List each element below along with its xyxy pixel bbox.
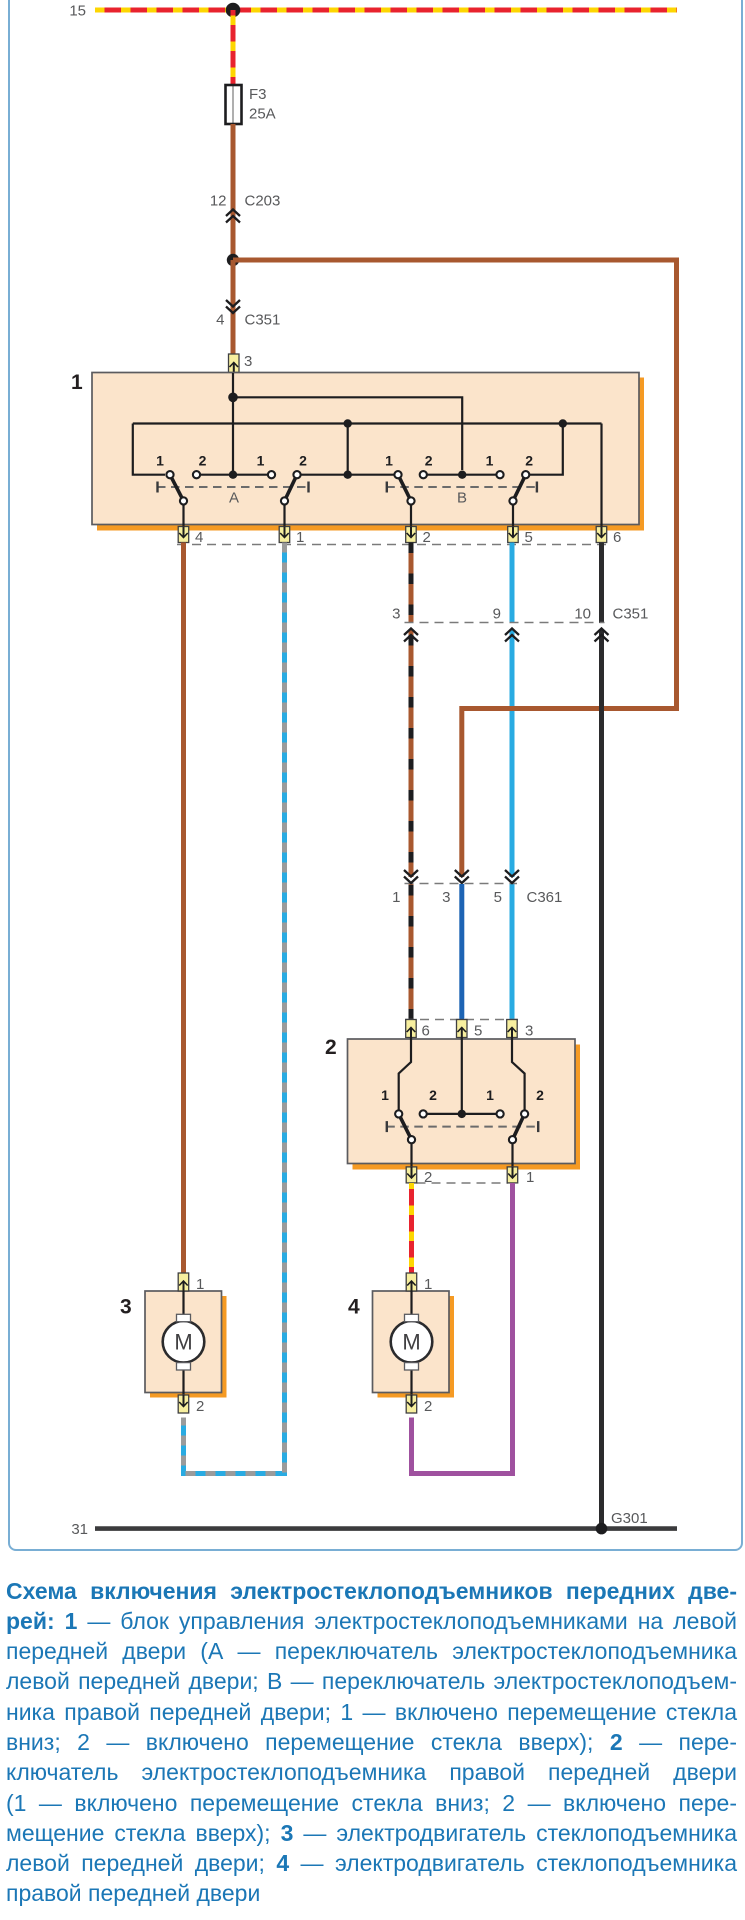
contact circles block2: [395, 1110, 528, 1117]
svg-text:1: 1: [71, 371, 83, 394]
connector C203 pin 12 chevrons: [226, 210, 240, 223]
connector C351 pin 9 chevrons: [505, 629, 519, 642]
pin 6 of block2: [406, 1020, 417, 1038]
switch B arm left: [398, 475, 411, 501]
junction line2 / riser A2'-B1: [344, 419, 352, 427]
connector C351 pin 4 chevrons: [226, 300, 240, 313]
svg-text:6: 6: [613, 529, 621, 546]
svg-text:C351: C351: [245, 312, 281, 329]
svg-text:G301: G301: [611, 1510, 648, 1527]
motor3 M circle: [163, 1321, 205, 1363]
switch A arm right (contact 2 to pivot): [285, 475, 298, 501]
motor4 internal wire: [410, 1291, 412, 1395]
svg-text:2: 2: [196, 1398, 204, 1415]
pin 6 of block1: [596, 527, 607, 543]
svg-text:3: 3: [120, 1296, 132, 1319]
svg-text:1: 1: [296, 529, 304, 546]
svg-text:1: 1: [526, 1169, 534, 1186]
svg-text:C203: C203: [245, 193, 281, 210]
wire node to C351 pin4 (brown): [231, 260, 236, 354]
wire cyan pin5 to C351 pin9: [510, 543, 515, 624]
junction line2 / riser B2': [559, 419, 567, 427]
svg-text:2: 2: [536, 1087, 544, 1103]
connector C351 pin 10 chevrons: [595, 629, 609, 642]
switch arm left block2: [399, 1114, 412, 1140]
wire contact row segment A2 to A1': [197, 474, 272, 476]
motor4 brush top: [405, 1314, 419, 1321]
pin 2 of block1: [406, 527, 417, 543]
svg-text:2: 2: [299, 453, 307, 469]
switch B travel dashed line: [386, 482, 537, 493]
block 1 body: [92, 373, 639, 525]
svg-text:4: 4: [348, 1296, 360, 1319]
junction riser on segment A2'-B1: [344, 471, 352, 479]
svg-text:15: 15: [69, 3, 86, 20]
wire brown/black C361 to block2 pin6: [409, 884, 414, 1020]
svg-text:4: 4: [216, 312, 224, 329]
wire pin5 into block2 to center junction: [461, 1038, 463, 1114]
wire yellow/red block2 pin2 to motor4 pin1: [409, 1183, 414, 1273]
wire cyan C361 to block2 pin3: [510, 884, 515, 1020]
pin 3 of block 1 (yellow connector): [229, 354, 240, 373]
svg-text:5: 5: [474, 1023, 482, 1040]
svg-text:1: 1: [257, 453, 265, 469]
junction on wire 15: [226, 3, 241, 18]
svg-text:2: 2: [424, 1398, 432, 1415]
svg-text:12: 12: [210, 193, 227, 210]
svg-text:1: 1: [385, 453, 393, 469]
connector C351 pin 3 chevrons: [404, 629, 418, 642]
motor4 brush bottom: [405, 1363, 419, 1370]
pin 3 of block2: [507, 1020, 518, 1038]
svg-text:1: 1: [156, 453, 164, 469]
dashed connector line over block2 top pins: [405, 1019, 518, 1021]
pin 2 of motor3: [178, 1395, 189, 1413]
svg-text:2: 2: [429, 1087, 437, 1103]
wire black C351 to ground: [599, 630, 604, 1529]
pin 1 of block1: [279, 527, 290, 543]
pin 4 of block1: [178, 527, 189, 543]
motor3 brush bottom: [177, 1363, 191, 1370]
svg-text:3: 3: [525, 1023, 533, 1040]
ground junction G301: [596, 1523, 608, 1535]
wire purple block2 pin1 to motor4 pin2: [412, 1183, 513, 1474]
junction feed on segment A: [229, 471, 237, 479]
wire contact row segment L2 to R1: [423, 1113, 500, 1115]
svg-text:2: 2: [199, 453, 207, 469]
svg-text:F3: F3: [249, 86, 267, 103]
switch arm right block2: [513, 1114, 525, 1140]
svg-text:3: 3: [244, 353, 252, 370]
wire fuse to node (brown): [231, 124, 236, 260]
block 2 body: [348, 1039, 576, 1164]
svg-text:1: 1: [196, 1276, 204, 1293]
pin 1 of motor4: [406, 1273, 417, 1291]
wire brown branch from node to C361 pin3: [233, 260, 677, 877]
svg-text:B: B: [457, 490, 467, 507]
pin 5 of block1: [508, 527, 519, 543]
wire feed node1 down to switch A center: [232, 397, 234, 474]
svg-text:9: 9: [493, 606, 501, 623]
wire line2 (common rail to pin 6): [133, 422, 602, 424]
wire pin3 into block1: [232, 373, 234, 397]
pin 2 of block2: [406, 1167, 417, 1183]
caption: [6, 1576, 737, 1909]
svg-text:2: 2: [425, 453, 433, 469]
pivot circles: [180, 497, 517, 504]
motor4 M circle: [391, 1321, 433, 1363]
stubs pivots to bottom pins block2: [412, 1144, 513, 1168]
fuse F3 25A: [226, 85, 242, 124]
svg-text:2: 2: [525, 453, 533, 469]
motor3 internal wire: [182, 1291, 184, 1395]
pivot circles block2: [408, 1136, 516, 1143]
svg-text:C361: C361: [527, 889, 563, 906]
svg-text:6: 6: [422, 1023, 430, 1040]
svg-text:2: 2: [424, 1169, 432, 1186]
wire brown pin4 to motor3 pin1: [181, 543, 186, 1274]
motor 3 body: [145, 1291, 222, 1393]
connector C351 row dashed line: [405, 622, 605, 624]
motor 4 body: [373, 1291, 450, 1393]
motor 3 shadow: [150, 1296, 227, 1398]
svg-text:2: 2: [423, 529, 431, 546]
svg-text:1: 1: [392, 889, 400, 906]
svg-text:1: 1: [486, 453, 494, 469]
travel dashed line block2: [386, 1121, 538, 1132]
dashed connector line under block2 bottom pins: [417, 1182, 509, 1184]
svg-text:4: 4: [195, 529, 203, 546]
wire brown/black pin2 to C351 pin3: [409, 543, 414, 624]
pin 1 of motor3: [178, 1273, 189, 1291]
svg-text:31: 31: [71, 1521, 88, 1538]
switch B arm right: [513, 475, 526, 501]
svg-text:M: M: [402, 1330, 420, 1355]
wire line2 left end down to contact A-1: [133, 424, 165, 475]
svg-text:C351: C351: [613, 606, 649, 623]
motor 4 shadow: [378, 1296, 455, 1398]
wire pin6 into block2 to contact L1: [399, 1038, 411, 1111]
junction feed block2: [458, 1110, 466, 1118]
junction feed on segment B: [458, 471, 466, 479]
connector C361 row dashed line: [405, 883, 518, 885]
svg-text:2: 2: [325, 1036, 337, 1059]
connector C361 pin 5 chevrons: [505, 870, 519, 883]
connector C361 pin 1 chevrons: [404, 870, 418, 883]
contact circles row: [166, 471, 529, 478]
svg-text:1: 1: [381, 1087, 389, 1103]
switch A arm left (contact 1 to pivot): [170, 475, 184, 501]
svg-text:10: 10: [574, 606, 591, 623]
wire contact row segment B2 to B1': [423, 474, 500, 476]
wire cyan C351 to C361 pin5: [510, 630, 515, 878]
block 1 shadow: [97, 378, 644, 531]
switch A travel dashed line: [157, 482, 309, 493]
wire 15 (yellow/red) horizontal: [95, 8, 677, 13]
block 2 shadow: [353, 1045, 581, 1170]
stubs pivots to pins: [184, 505, 514, 528]
svg-text:5: 5: [494, 889, 502, 906]
wire pin3 into block2 to contact R2: [512, 1038, 525, 1111]
svg-text:3: 3: [392, 606, 400, 623]
svg-text:M: M: [174, 1330, 192, 1355]
wire feed line1 node1 to switch B center: [233, 397, 462, 470]
connector C361 pin 3 chevrons: [455, 870, 469, 883]
wire contact row segment A2' to B1: [297, 474, 398, 476]
wire line2 right end down to pin 6: [600, 424, 602, 527]
dashed connector line under block1 pins: [177, 544, 608, 546]
wire cyan/grey pin1 to motor3 pin2: [184, 543, 285, 1474]
svg-text:25A: 25A: [249, 106, 276, 123]
pin 5 of block2: [457, 1020, 468, 1038]
wire riser from contacts A2'/B1 to line2: [347, 424, 349, 475]
wire from 15 to fuse (yellow/red): [231, 10, 236, 85]
svg-text:1: 1: [486, 1087, 494, 1103]
wire black pin6 to C351 pin10: [599, 543, 604, 624]
pin 2 of motor4: [406, 1395, 417, 1413]
motor3 brush top: [177, 1314, 191, 1321]
wire brown/black C351 to C361 pin1: [409, 630, 414, 878]
node: brown branch junction: [227, 254, 239, 266]
node1 feed junction: [228, 393, 238, 403]
wire riser from contact B2' to line2: [530, 424, 563, 475]
svg-text:A: A: [229, 490, 239, 507]
wire dark blue C361 to block2 pin5: [459, 884, 464, 1020]
svg-text:3: 3: [442, 889, 450, 906]
svg-text:5: 5: [525, 529, 533, 546]
ground rail 31: [95, 1526, 677, 1531]
pin 1 of block2: [507, 1167, 518, 1183]
svg-text:1: 1: [424, 1276, 432, 1293]
